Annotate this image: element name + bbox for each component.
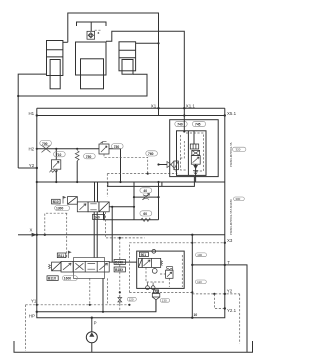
throttle 40 <box>142 193 149 200</box>
svg-text:X1.1: X1.1 <box>186 104 196 109</box>
label 140 box <box>93 214 105 219</box>
node X1.1 <box>183 107 185 109</box>
solenoid valve B10 <box>68 197 110 212</box>
pilot dashed Y2.1 jog <box>214 294 224 309</box>
svg-text:700: 700 <box>42 142 48 146</box>
pilot dashed Y2 line <box>192 293 239 295</box>
grab bracket <box>77 22 107 26</box>
wire sol valve out B <box>104 212 135 220</box>
wire pressure rail <box>37 300 156 312</box>
valve 43 enclosure <box>74 258 105 279</box>
svg-text:Y2: Y2 <box>29 163 35 168</box>
svg-text:B11: B11 <box>58 254 64 258</box>
node right cylinder X1 <box>157 42 159 44</box>
svg-text:745: 745 <box>195 123 201 127</box>
label 300 pill <box>234 197 245 201</box>
X feed arrow <box>18 233 37 237</box>
svg-text:710: 710 <box>56 153 62 157</box>
node 760 feed <box>157 163 159 165</box>
label 710 pill <box>54 152 66 157</box>
node return-750 <box>76 181 78 183</box>
pilot dashed 730 to 760 <box>104 154 148 174</box>
node T-10 <box>191 317 193 319</box>
node loop top-right <box>157 196 159 198</box>
node coupling-dash <box>119 291 121 293</box>
label 745 pill <box>192 121 205 126</box>
power unit sol valve <box>138 258 162 267</box>
svg-text:HP: HP <box>29 313 35 318</box>
pilot dashed Y2 to tank <box>239 294 241 344</box>
node H1 right <box>224 114 226 116</box>
label 25 box <box>154 290 159 294</box>
label 1300 pill <box>55 206 70 211</box>
pilot dashed 43 valve T <box>89 278 91 304</box>
label 320 pill <box>233 147 246 152</box>
svg-text:P: P <box>94 321 97 326</box>
svg-text:1300: 1300 <box>56 207 64 211</box>
node X-dashed <box>44 234 46 236</box>
label 740 pill <box>175 121 187 126</box>
svg-text:300: 300 <box>235 197 240 201</box>
svg-text:320: 320 <box>236 148 241 152</box>
cylinder right rod <box>122 60 133 75</box>
svg-text:H2: H2 <box>29 147 35 152</box>
drain circle a <box>146 286 150 290</box>
svg-text:H1: H1 <box>29 111 35 116</box>
wire X1.1 into block <box>183 116 185 132</box>
node valve P <box>102 311 104 313</box>
node T-left <box>191 264 193 266</box>
node X-right <box>191 234 193 236</box>
power unit gauge circle <box>152 269 157 274</box>
svg-text:120: 120 <box>129 298 134 302</box>
spring check 750 <box>75 151 79 183</box>
pump <box>86 318 97 353</box>
pilot dashed sol to 43valve <box>66 213 68 257</box>
svg-text:X3: X3 <box>227 238 233 243</box>
cylinder middle body <box>76 42 107 75</box>
label 760 pill <box>146 151 158 156</box>
power unit internal dashes <box>146 255 182 287</box>
label 40 pill <box>140 188 152 193</box>
relief valve 710 <box>50 149 61 182</box>
label 120 pill <box>127 297 136 301</box>
node P-rail left <box>36 311 38 313</box>
wire X1 riser <box>63 41 68 43</box>
node loop top-left <box>133 196 135 198</box>
wire right rod to lower rail <box>18 74 147 96</box>
pilot dashed sol valve drain <box>106 212 145 238</box>
pilot dashed under 760 <box>107 173 177 175</box>
label x at rotator <box>95 30 101 35</box>
cylinder middle rod <box>81 59 104 89</box>
label 730 pill <box>112 144 124 149</box>
label 1600 pill <box>62 276 77 281</box>
node return-X1 <box>157 181 159 183</box>
label B11X box <box>47 276 58 281</box>
svg-text:Y2: Y2 <box>227 288 233 293</box>
wire T line <box>192 265 247 352</box>
power unit dashed box <box>129 243 224 293</box>
label 110 pill <box>195 280 206 284</box>
wire X line <box>37 234 225 236</box>
compensator 760 <box>159 161 179 174</box>
wire T rail handled by frame, nodes <box>91 317 93 319</box>
svg-text:Y1: Y1 <box>31 299 37 304</box>
wire Y2 left stub <box>18 167 37 169</box>
svg-text:130: 130 <box>162 299 167 303</box>
svg-text:730: 730 <box>114 145 120 149</box>
cylinder left body <box>47 41 63 76</box>
wire left cylinder to left rail <box>18 74 46 168</box>
wire 43 valve to power unit <box>109 261 137 263</box>
svg-text:501: 501 <box>141 253 147 257</box>
pilot dashed from X to sol valve <box>45 213 68 235</box>
svg-text:10: 10 <box>194 313 198 317</box>
svg-text:40: 40 <box>143 189 147 193</box>
node sol out A <box>111 206 113 208</box>
node Y2 <box>36 167 38 169</box>
return lower segment <box>108 177 195 187</box>
drain stubs <box>148 283 154 286</box>
label B11 flag <box>68 251 71 258</box>
pilot dashed Y1 line <box>26 304 130 306</box>
svg-text:B11X: B11X <box>48 277 57 281</box>
wire right cylinder top to X1 line <box>136 42 159 44</box>
svg-text:760: 760 <box>148 152 154 156</box>
cylinder right body <box>119 42 136 71</box>
label B10 box <box>52 199 61 204</box>
svg-text:X5.1: X5.1 <box>227 111 237 116</box>
wire B10 risers to return <box>95 182 98 202</box>
node H2-left <box>36 148 38 150</box>
node Y2-jog <box>213 293 215 295</box>
pilot dashed 43 valve T2 <box>107 278 109 304</box>
svg-text:1600: 1600 <box>64 277 72 281</box>
node pilot <box>147 173 149 175</box>
test coupling <box>118 238 122 312</box>
svg-text:B10: B10 <box>53 200 59 204</box>
label 501 box <box>139 252 148 257</box>
wire sol down to 43 valve pair <box>94 212 97 258</box>
valve 730 <box>99 142 109 154</box>
label 100 pill <box>196 253 207 257</box>
svg-text:P60M1-M7K501-TA7-M1K50: P60M1-M7K501-TA7-M1K50 <box>229 199 233 235</box>
pilot dashed Y1 to tank <box>25 305 27 351</box>
wire right port down <box>111 207 113 262</box>
node drain coupling <box>119 237 121 239</box>
bracket stem wire <box>90 22 92 31</box>
block 740 internals right cell <box>190 131 200 182</box>
node H2-750 <box>76 148 78 150</box>
label 750 pill <box>84 154 96 159</box>
node return-730 <box>119 181 121 183</box>
block 740 internal pilot dashes <box>179 133 204 171</box>
block 740 inner body <box>177 131 207 176</box>
wire 43 valve P <box>102 278 104 311</box>
power unit body <box>137 251 185 288</box>
power unit relief <box>160 267 173 279</box>
cylinder left rod <box>50 60 60 89</box>
valve 43 B11 <box>49 261 110 272</box>
tank line <box>14 341 253 352</box>
node H1 left <box>36 114 38 116</box>
node block bottom <box>191 291 193 293</box>
svg-text:740: 740 <box>177 123 183 127</box>
svg-text:X1: X1 <box>151 104 157 109</box>
svg-text:60: 60 <box>143 212 147 216</box>
node H2-710 <box>55 148 57 150</box>
wire H2 line <box>37 148 99 150</box>
svg-text:P60M1-M7K501-TA: P60M1-M7K501-TA <box>229 142 233 167</box>
node X3 <box>224 242 226 244</box>
throttle 700 <box>42 145 51 152</box>
wire H1 line <box>37 115 225 117</box>
wire right block edge <box>191 235 193 318</box>
label 130 pill <box>160 299 170 303</box>
port circle top <box>152 249 156 253</box>
node T-mid <box>224 264 226 266</box>
rotator valve box <box>87 31 95 39</box>
node Y1-c <box>128 304 130 306</box>
label B14 box <box>114 260 125 265</box>
svg-text:750: 750 <box>86 155 92 159</box>
node X1 <box>157 107 159 109</box>
label B11 box <box>57 253 66 258</box>
node X3-block <box>191 242 193 244</box>
return filter funnel <box>152 293 160 312</box>
wire main top bus <box>37 107 225 109</box>
svg-text:110: 110 <box>197 280 202 284</box>
wire left frame vertical <box>37 108 225 318</box>
node X-left <box>36 234 38 236</box>
svg-text:X: X <box>30 228 33 233</box>
bypass loop verticals <box>134 182 159 220</box>
node lower rail left <box>17 95 19 97</box>
label 700 pill <box>40 140 52 145</box>
svg-text:100: 100 <box>197 253 202 257</box>
node Y1-b <box>89 304 91 306</box>
block 740 divider <box>187 131 189 176</box>
valve block 740 outer <box>170 120 219 177</box>
node return-left <box>36 181 38 183</box>
node Y1-a <box>36 304 38 306</box>
wire middle cylinder to X1.1 <box>106 31 184 115</box>
svg-text:Y2.1: Y2.1 <box>227 308 237 313</box>
node Y2.1 <box>224 307 226 309</box>
svg-text:T: T <box>227 260 230 265</box>
drain circle b <box>151 286 155 290</box>
wire return line <box>37 181 225 183</box>
node Y2 <box>224 293 226 295</box>
label B10 flag <box>63 196 66 204</box>
node return-710 <box>55 181 57 183</box>
label B15 box <box>114 267 125 272</box>
check 60 spring <box>141 218 151 221</box>
wire sol valve out A <box>109 206 134 208</box>
label 60 pill <box>140 211 152 216</box>
svg-text:x: x <box>98 31 100 35</box>
